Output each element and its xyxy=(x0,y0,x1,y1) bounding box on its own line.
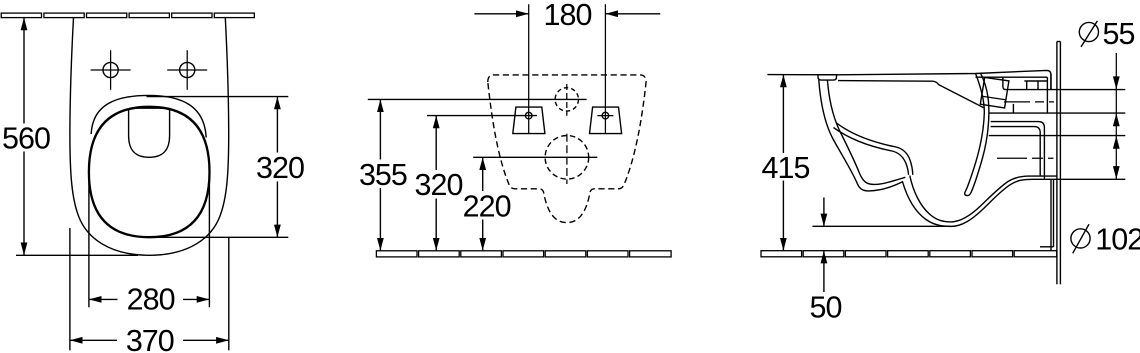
toilet body outline (top view) xyxy=(70,18,229,256)
rim top line xyxy=(837,70,1051,89)
water inlet circle d55 xyxy=(555,88,578,111)
mounting hole right xyxy=(167,50,207,90)
svg-text:280: 280 xyxy=(127,283,175,317)
bowl rim oval xyxy=(89,107,210,237)
flush pipe d55 top line xyxy=(1006,89,1125,91)
svg-text:55: 55 xyxy=(1103,17,1135,51)
svg-text:102: 102 xyxy=(1095,222,1140,256)
dimension 50 xyxy=(810,198,951,325)
rim front lip xyxy=(818,75,837,80)
dimension 280 xyxy=(89,176,209,317)
flush valve notch xyxy=(1024,81,1047,89)
rim underside line xyxy=(838,81,984,108)
rim channel band xyxy=(837,123,913,175)
weir (bowl back wall) xyxy=(965,74,989,196)
svg-text:320: 320 xyxy=(415,168,463,202)
seat outer arc xyxy=(91,95,206,137)
dimension 320 (left view) xyxy=(147,97,304,238)
dimension d102 label xyxy=(1071,222,1140,256)
wall xyxy=(1057,42,1061,285)
dimension d55/d102 line + arrows xyxy=(1113,53,1120,179)
flush pipe d55 bottom line xyxy=(990,112,1126,114)
valve stem vertical xyxy=(1012,104,1014,113)
drain circle d102 xyxy=(545,136,589,180)
floor bar (side view) xyxy=(761,251,1057,257)
svg-text:415: 415 xyxy=(762,151,810,185)
drain socket xyxy=(991,122,1045,179)
wall bar segments xyxy=(1,13,254,18)
tank left corner xyxy=(1003,77,1006,89)
mounting hole left xyxy=(91,50,131,90)
dimension 370 xyxy=(70,228,229,353)
trap inner xyxy=(910,176,1057,222)
fixing bolt left xyxy=(513,107,545,134)
drain pipe d102 top line xyxy=(989,135,1126,137)
dimension 180 xyxy=(474,0,660,133)
d55 pipe centerline xyxy=(1004,101,1054,103)
svg-text:320: 320 xyxy=(256,151,304,185)
inner top surface line xyxy=(976,76,1048,78)
toilet back face xyxy=(1040,74,1054,250)
front face outer + trap outer xyxy=(819,80,1126,226)
svg-text:560: 560 xyxy=(2,122,50,156)
d102 pipe centerline xyxy=(997,157,1054,159)
svg-text:180: 180 xyxy=(544,0,592,32)
dimension 220 xyxy=(463,157,598,250)
dashed body outline xyxy=(488,75,646,223)
floor bar (middle view) xyxy=(376,251,671,257)
svg-text:355: 355 xyxy=(359,158,407,192)
dimension 560 xyxy=(2,18,138,256)
front face inner xyxy=(827,80,905,184)
dimension 355 xyxy=(359,99,587,250)
flush distributor xyxy=(129,108,170,157)
dimension 415 xyxy=(762,75,837,251)
svg-text:370: 370 xyxy=(126,324,174,353)
dimension 320 (middle) xyxy=(415,116,537,251)
svg-text:50: 50 xyxy=(810,291,842,325)
seat hinge panel xyxy=(980,77,1009,108)
svg-text:220: 220 xyxy=(463,189,511,223)
dimension d55 label xyxy=(1079,17,1134,51)
fixing bolt right xyxy=(590,107,622,134)
